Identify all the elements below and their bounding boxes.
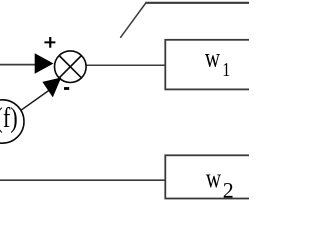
wire from feedback circle to summing junction xyxy=(14,85,56,115)
svg-text:w: w xyxy=(206,164,222,194)
wire input to summing junction xyxy=(0,64,37,66)
block W2 xyxy=(165,155,253,198)
wire top horizontal callout line xyxy=(146,2,250,4)
plus sign xyxy=(44,37,55,48)
svg-text:1: 1 xyxy=(222,58,230,80)
feedback circle (f) xyxy=(0,100,24,143)
svg-text:2: 2 xyxy=(223,178,234,203)
arrowhead into summing junction (diagonal, minus input) xyxy=(42,78,61,98)
summing junction circle with X xyxy=(55,51,87,83)
wire input to W2 xyxy=(0,179,165,181)
svg-text:w: w xyxy=(205,43,221,73)
wire summing junction to W1 xyxy=(85,64,165,66)
arrowhead into summing junction (horizontal) xyxy=(35,53,54,73)
wire diagonal callout line xyxy=(120,2,146,38)
minus sign xyxy=(64,87,69,90)
block W1 xyxy=(165,40,253,90)
svg-text:(f): (f) xyxy=(0,103,18,134)
